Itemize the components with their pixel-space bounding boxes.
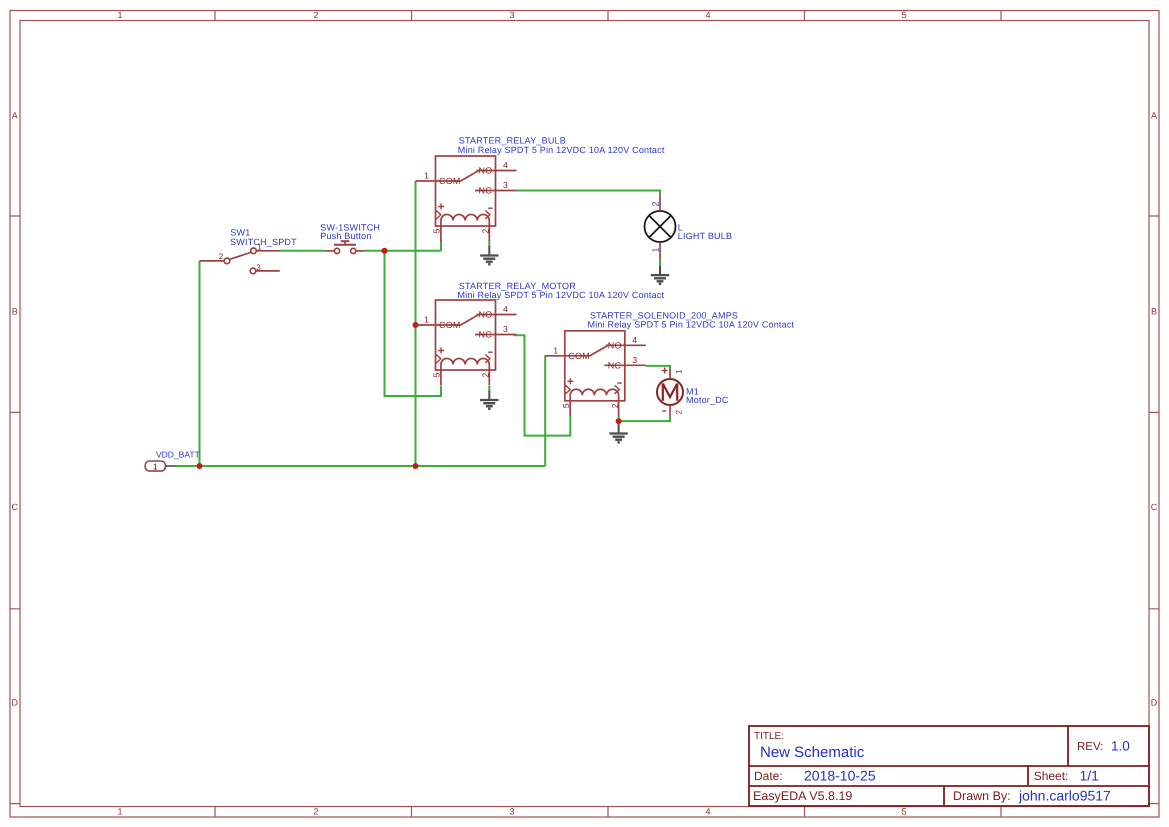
wire relay1 NC to bulb: [517, 191, 661, 195]
wire SW1 pin2 vertical: [199, 261, 201, 466]
motor M1 Motor_DC: [657, 379, 683, 405]
svg-text:D: D: [1151, 698, 1158, 708]
svg-text:5: 5: [901, 807, 906, 817]
svg-text:REV:: REV:: [1077, 741, 1103, 753]
wire push button to relay coils: [365, 250, 441, 252]
wire relay2 pin2 to ground: [488, 386, 490, 391]
wire relay3 NC to motor pin1: [646, 366, 670, 369]
push button SW-1SWITCH labels: [320, 222, 380, 241]
svg-text:3: 3: [509, 807, 514, 817]
relay U3 STARTER_SOLENOID_200_AMPS: [545, 331, 646, 416]
svg-text:Mini Relay SPDT 5 Pin 12VDC 10: Mini Relay SPDT 5 Pin 12VDC 10A 120V Con…: [588, 320, 795, 330]
svg-text:1/1: 1/1: [1080, 768, 1100, 784]
wire bulb bottom to ground: [659, 260, 661, 266]
svg-text:Drawn By:: Drawn By:: [953, 789, 1011, 803]
ground for lamp L: [651, 266, 669, 284]
svg-text:SWITCH_SPDT: SWITCH_SPDT: [230, 237, 297, 247]
lamp L labels: [678, 223, 732, 241]
svg-text:3: 3: [256, 263, 261, 272]
frame column ticks bottom: [215, 807, 1001, 818]
svg-text:1: 1: [117, 10, 122, 20]
svg-text:2: 2: [219, 252, 224, 261]
frame column ticks top: [215, 11, 1001, 21]
relay U3 labels: [588, 310, 795, 329]
svg-text:Mini Relay SPDT 5 Pin 12VDC 10: Mini Relay SPDT 5 Pin 12VDC 10A 120V Con…: [458, 290, 665, 300]
svg-text:New Schematic: New Schematic: [760, 744, 865, 761]
svg-text:EasyEDA V5.8.19: EasyEDA V5.8.19: [753, 789, 852, 803]
net port VDD_BATT: [145, 449, 200, 471]
svg-text:1: 1: [650, 247, 660, 252]
motor M1 pins: [662, 368, 670, 415]
relay U2 STARTER_RELAY_MOTOR: [416, 300, 517, 385]
lamp L pins: [659, 195, 661, 260]
svg-text:VDD_BATT: VDD_BATT: [156, 449, 200, 459]
junction dot B: [413, 463, 419, 469]
svg-text:2018-10-25: 2018-10-25: [804, 768, 876, 784]
svg-text:4: 4: [705, 10, 710, 20]
svg-text:Sheet:: Sheet:: [1034, 769, 1069, 783]
svg-text:C: C: [1151, 502, 1158, 512]
wire relay1 pin5 drop: [440, 241, 442, 251]
wire relay3 pin2 to junction: [618, 415, 620, 421]
wire relay2 NC to relay3 pin5: [514, 335, 571, 435]
svg-text:B: B: [1151, 307, 1157, 317]
svg-text:2: 2: [313, 10, 318, 20]
svg-text:C: C: [11, 502, 18, 512]
lamp L LIGHT BULB: [645, 211, 676, 242]
junction dot A: [197, 248, 622, 469]
svg-text:1: 1: [117, 807, 122, 817]
svg-text:Date:: Date:: [754, 769, 783, 783]
wire relay3 COM vertical: [544, 356, 546, 466]
svg-text:A: A: [1151, 111, 1157, 121]
motor M1 labels: [686, 386, 729, 405]
wire relay1 pin2 to ground: [488, 241, 490, 247]
wire SW1 pin1 to push button: [279, 250, 326, 252]
svg-text:TITLE:: TITLE:: [754, 731, 784, 742]
svg-text:3: 3: [509, 10, 514, 20]
relay U1 labels: [458, 136, 665, 155]
frame row ticks right: [1149, 216, 1159, 804]
relay U1 STARTER_RELAY_BULB: [416, 156, 517, 241]
svg-text:B: B: [12, 307, 18, 317]
svg-text:LIGHT BULB: LIGHT BULB: [678, 231, 732, 241]
wire motor pin2 to junction: [619, 415, 670, 421]
switch SW1 pin numbers: [219, 242, 263, 271]
svg-text:4: 4: [705, 807, 710, 817]
svg-text:1: 1: [675, 369, 684, 374]
wire junction to relay2 pin5: [385, 251, 442, 396]
title block border: [749, 726, 1149, 806]
svg-text:Motor_DC: Motor_DC: [686, 395, 729, 405]
svg-text:Push Button: Push Button: [320, 231, 371, 241]
svg-text:john.carlo9517: john.carlo9517: [1018, 788, 1111, 804]
wire net VDD_BATT bottom horizontal: [176, 181, 670, 466]
switch SW1 SWITCH_SPDT: [200, 248, 280, 274]
svg-text:2: 2: [650, 201, 660, 206]
ground for relay U3 / motor: [609, 424, 627, 442]
svg-text:5: 5: [901, 10, 906, 20]
switch SW1 labels: [230, 228, 297, 247]
motor M1 pin numbers: [675, 369, 684, 415]
svg-text:2: 2: [313, 807, 318, 817]
title block text: [753, 731, 1130, 804]
wire main vertical relay COM bus: [415, 181, 417, 466]
svg-text:1: 1: [153, 462, 158, 472]
push button SW-1SWITCH: [325, 241, 365, 253]
lamp L pin numbers: [650, 201, 660, 252]
junction dot C: [382, 248, 388, 254]
ground for relay U1 coil: [480, 246, 498, 264]
frame row ticks left: [10, 216, 20, 804]
svg-text:Mini Relay SPDT 5 Pin 12VDC 10: Mini Relay SPDT 5 Pin 12VDC 10A 120V Con…: [458, 145, 665, 155]
relay U2 labels: [458, 281, 665, 300]
ground for relay U2 coil: [480, 391, 498, 409]
svg-text:A: A: [12, 111, 18, 121]
junction dot E: [616, 418, 622, 424]
svg-text:2: 2: [675, 410, 684, 415]
svg-text:D: D: [11, 698, 18, 708]
svg-text:1.0: 1.0: [1111, 739, 1130, 754]
junction dot D: [413, 322, 419, 328]
